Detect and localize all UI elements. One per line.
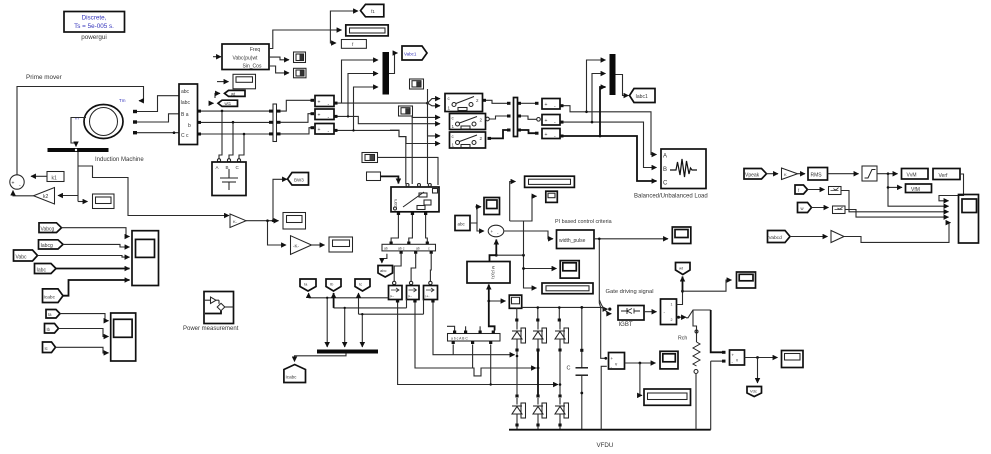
wire to VfM: [888, 186, 902, 188]
wire into breaker2 c: [412, 116, 440, 117]
sum S1: [10, 175, 24, 189]
wire row b to busbar2: [201, 121, 269, 123]
wire abc tap to scope4: [477, 207, 481, 223]
wire row a to busbar2: [201, 110, 269, 112]
goto tag wt: [225, 90, 246, 96]
wire gain2 out to BW3 and display H: [246, 220, 279, 222]
wire vmeas6 to load C: [564, 136, 657, 181]
wire saturation to VvM: [877, 173, 898, 175]
wire strip to imeas1: [394, 254, 401, 281]
scope B: [294, 68, 307, 78]
svg-text:K-: K-: [233, 219, 238, 224]
gain k4 (speed): [230, 214, 246, 228]
wire v2 minus: [710, 361, 712, 430]
wire wt to scope A: [269, 57, 289, 60]
svg-text:Prime mover: Prime mover: [26, 74, 62, 81]
svg-text:Power measurement: Power measurement: [183, 326, 239, 332]
from tag Vabcg: [39, 223, 62, 233]
svg-text:+: +: [318, 127, 321, 133]
wire Icabc2 to scope1: [63, 280, 130, 296]
wire into display under PLL: [217, 81, 229, 83]
from tag Vpeak: [744, 169, 767, 180]
svg-text:Ts = 5e-005 s.: Ts = 5e-005 s.: [74, 23, 114, 30]
wire Iabc to scope1: [56, 268, 130, 270]
wire Iabcg to scope1: [63, 244, 130, 247]
wire into scope3b: [524, 268, 557, 270]
wire imeas3 left line: [359, 313, 424, 315]
from tag Icabc2: [43, 289, 64, 303]
icon block small: [546, 191, 558, 202]
wire SinCos to scope B: [269, 66, 289, 73]
scope D: [399, 106, 413, 116]
wire bar to speed display path: [78, 166, 229, 216]
display G: [329, 237, 353, 252]
goto tag Iabc1: [630, 89, 656, 103]
MLI block: [467, 262, 510, 284]
gain4: [831, 231, 844, 243]
voltage measurement Vdc1: [609, 353, 625, 370]
gate stubs to diode tops: [516, 308, 518, 319]
measurement busbar: [48, 148, 109, 152]
wire block F to switch select: [381, 176, 399, 183]
scope3: [959, 195, 979, 244]
wire gate signal down: [599, 239, 600, 308]
svg-text:VFDU: VFDU: [597, 442, 614, 449]
wire Freq to top row: [269, 30, 330, 49]
wire vmeas5 to load B: [564, 122, 657, 167]
imeas bottom pins: [396, 300, 399, 303]
scope7: [660, 351, 678, 369]
block8 vertical: [661, 299, 677, 325]
wire tap to mux2 in2: [592, 74, 606, 123]
scope C above breakers: [410, 79, 424, 89]
goto tag Icabc: [284, 365, 306, 383]
display H: [283, 213, 306, 230]
DC V measure vertical: [601, 307, 606, 358]
svg-text:VfM: VfM: [911, 187, 920, 193]
wire B3 out to bus3: [491, 130, 507, 138]
svg-text:ab c: ab c: [398, 247, 405, 251]
junction c: [173, 131, 176, 134]
wire scope D down: [411, 116, 413, 184]
goto tag Ic: [355, 279, 370, 291]
mux2: [610, 54, 616, 95]
wire Ic to scope2: [56, 347, 109, 353]
wire Vabcg to scope1: [62, 228, 130, 237]
PLL block: [222, 44, 269, 70]
wire bus2 to vmeas2: [281, 114, 311, 123]
wire branch to icon block: [510, 196, 537, 221]
wire imeas1 left line: [309, 297, 389, 299]
current measurement i1: [389, 281, 403, 299]
wire tap b to cap bank: [229, 122, 233, 158]
svg-text:C: C: [567, 366, 571, 372]
goto tag BW3: [288, 173, 309, 186]
wire switch out1 to strip: [391, 215, 398, 242]
stem to goto Ia: [308, 293, 310, 298]
wire mux1 to goto Vabc: [389, 53, 398, 74]
port c: [133, 131, 137, 134]
svg-text:abc: abc: [181, 89, 190, 95]
svg-text:powergui: powergui: [81, 34, 107, 41]
svg-text:Discrete,: Discrete,: [82, 15, 107, 22]
wire V2 tap to mux1: [348, 74, 378, 117]
thick MLI feed line: [489, 286, 495, 331]
wire up to goto Ich: [682, 277, 684, 292]
wire m output to measurement bar: [71, 118, 86, 147]
power measurement block: [204, 292, 234, 324]
gate line horizontal: [522, 306, 601, 308]
voltage measurement Vdc2: [730, 350, 745, 365]
wire into breaker3 c: [428, 130, 441, 136]
constant k1: [47, 172, 64, 182]
voltage measurement V3: [315, 124, 334, 136]
wire into breaker1 c: [428, 99, 441, 104]
stub strip2 pin1: [452, 345, 454, 355]
svg-text:+: +: [611, 356, 614, 361]
from tag Iabc: [35, 264, 57, 274]
wire B2 out to bus3: [490, 116, 508, 119]
wire to display wm: [78, 201, 88, 203]
svg-text:Iabc: Iabc: [181, 100, 191, 106]
svg-text:+: +: [318, 113, 321, 119]
svg-text:A: A: [663, 154, 667, 160]
from tag f: [795, 185, 808, 194]
arrow into MLI bottom: [488, 285, 490, 289]
wire to gain k2: [58, 195, 78, 197]
vmeas4: [542, 99, 560, 111]
svg-text:Gate driving signal: Gate driving signal: [606, 289, 654, 295]
scope A: [294, 52, 306, 63]
wire sum2 to width_pulse: [504, 231, 553, 239]
wire busbar4 to goto Icabc: [295, 354, 347, 362]
stem to goto Ib: [333, 293, 335, 308]
multiport switch: [391, 187, 439, 212]
svg-text:BW3: BW3: [294, 178, 304, 183]
wire tf2 to scope3: [845, 210, 949, 218]
wire gain3 to RMS: [798, 173, 806, 175]
wire Ib to scope2: [59, 329, 109, 337]
induction machine IM: [84, 105, 123, 139]
wires into IGBT: [601, 307, 608, 309]
wire up to goto BW3: [273, 179, 287, 220]
busbar 4: [317, 350, 378, 354]
balanced/unbalanced load: [661, 149, 706, 189]
wire block8 bottom out: [677, 316, 687, 318]
wire branch to display2: [496, 255, 536, 288]
svg-text:+: +: [491, 229, 494, 234]
wire block E to switch top right: [378, 157, 439, 185]
goto tag Ich: [676, 263, 691, 275]
voltage measurement V2: [315, 109, 334, 121]
wire abc to sum2: [470, 223, 484, 231]
wire machine a to selector: [137, 96, 179, 112]
svg-text:1: 1: [671, 303, 673, 307]
wire V3 out to breaker3: [338, 130, 441, 143]
sum2: [488, 225, 504, 237]
svg-text:abc: abc: [458, 222, 466, 227]
gain k2: [34, 188, 55, 205]
display VfM: [906, 184, 932, 193]
mux1: [383, 52, 390, 95]
display VvM: [902, 169, 929, 180]
wire junction to scope8: [683, 280, 732, 291]
vmeas5: [542, 115, 560, 127]
transfer fcn tf2: [833, 206, 846, 214]
loop wire imeas2 to bridge leg2: [415, 303, 536, 376]
gain -K-: [291, 236, 312, 255]
wire tap a to cap bank: [219, 111, 222, 159]
wire w to tf2: [812, 207, 829, 209]
wire into PLL: [213, 56, 221, 58]
display2 wide: [542, 283, 593, 294]
bus selector: [179, 84, 198, 145]
wire width_pulse to scope5: [594, 238, 668, 240]
breaker B2: [450, 114, 486, 130]
wire stair down left of breakers: [390, 130, 406, 184]
display under PLL: [233, 74, 256, 89]
svg-text:M (2)(1): M (2)(1): [491, 266, 495, 279]
switch top input pins: [406, 184, 409, 187]
loop wire imeas3 to bridge leg1: [433, 303, 515, 355]
wire vertical to display1: [510, 182, 516, 222]
svg-text:-K-: -K-: [293, 244, 300, 249]
scope5: [672, 227, 691, 244]
wire Vabcd to gain4: [790, 236, 828, 238]
wire imeas2 left line: [334, 307, 407, 309]
wire f to tf1: [808, 189, 825, 191]
wire bus3 to vmeas4: [521, 102, 535, 104]
wire gain4 to scope3 in5: [844, 223, 951, 243]
out pins vmeas4-6: [560, 104, 564, 107]
wire k2 to sum: [13, 191, 34, 196]
svg-text:+: +: [545, 102, 548, 108]
wire v2 plus: [711, 310, 722, 352]
svg-text:+: +: [545, 132, 548, 138]
bottom rail: [509, 429, 711, 431]
svg-text:2: 2: [671, 318, 673, 322]
saturation block: [862, 166, 877, 181]
svg-text:Freq: Freq: [250, 47, 261, 53]
svg-text:Balanced/Unbalanced Load: Balanced/Unbalanced Load: [634, 194, 708, 200]
wire switch out3 to strip: [426, 215, 428, 242]
svg-text:Vabc1: Vabc1: [404, 52, 417, 57]
goto tag f1: [361, 4, 384, 16]
from tag Ia2: [46, 310, 60, 319]
svg-text:ab: ab: [384, 247, 388, 251]
svg-text:Induction Machine: Induction Machine: [95, 157, 144, 163]
svg-text:C: C: [663, 181, 668, 187]
loop wire imeas1 to bridge leg3: [398, 303, 558, 385]
wire bar down: [77, 152, 79, 202]
port a: [133, 110, 137, 113]
gain3: [782, 168, 798, 180]
bus bar 2: [269, 104, 281, 142]
wire machine b to selector: [137, 114, 179, 122]
wire into tag wt: [215, 93, 220, 98]
wire display H to gain: [268, 221, 287, 245]
wire to constant f: [330, 30, 336, 43]
scope1: [132, 231, 159, 286]
wire RMS to saturation: [828, 173, 859, 175]
diode upper 1: [512, 322, 526, 350]
svg-text:k2: k2: [43, 194, 49, 200]
svg-text:Tm: Tm: [119, 98, 126, 103]
wire Vdc2 to display4: [745, 357, 778, 359]
goto tag fm: [218, 100, 238, 106]
wire Verf loop to scope3: [939, 174, 964, 201]
capacitor C: [576, 306, 589, 430]
wire IGBT out to block8: [644, 311, 657, 313]
svg-text:k1: k1: [52, 176, 58, 182]
stubs above strip2: [447, 326, 455, 330]
source block E: [362, 153, 378, 163]
svg-text:K: K: [784, 172, 787, 177]
svg-text:com: com: [393, 199, 398, 207]
constant f: [341, 40, 366, 49]
wire into breaker1 in1: [428, 103, 441, 106]
powergui block: [64, 12, 125, 42]
display Verf: [933, 169, 960, 180]
voltage measurement V1: [315, 96, 334, 108]
junction to breaker1: [426, 102, 429, 105]
demux strip: [382, 242, 436, 254]
stub strip2 pin3: [490, 345, 492, 385]
svg-text:Iabc1: Iabc1: [636, 94, 648, 100]
capacitor bank: [212, 162, 246, 196]
scope6 small: [509, 295, 521, 308]
svg-text:B a: B a: [181, 112, 189, 118]
svg-text:Iabc: Iabc: [37, 268, 47, 274]
svg-text:width_pulse: width_pulse: [559, 238, 586, 244]
wire strip to goto Vdq: [382, 254, 387, 263]
svg-text:PI based control criteria: PI based control criteria: [555, 219, 612, 225]
svg-text:B: B: [226, 165, 229, 170]
svg-text:Verf: Verf: [939, 173, 949, 179]
diode upper 2: [533, 322, 547, 350]
width_pulse block: [557, 230, 595, 249]
svg-text:B: B: [663, 167, 667, 173]
upper diode bottom pins: [515, 349, 518, 352]
from tag Iabcg: [39, 240, 64, 249]
display wm: [93, 194, 115, 209]
bus3 right pins: [518, 102, 522, 105]
svg-text:abc: abc: [380, 268, 386, 273]
stems down to busbar4: [326, 298, 328, 347]
diode lower 2: [533, 398, 547, 424]
vmeas6: [542, 129, 560, 141]
goto tag Ib: [326, 279, 341, 291]
leg junction dots: [516, 355, 519, 358]
scope4: [484, 198, 500, 215]
svg-text:Vabc: Vabc: [16, 255, 28, 261]
resistor Rch: [693, 342, 700, 430]
wire Vdc2 to goto Vdc: [757, 358, 759, 384]
svg-text:RMS: RMS: [811, 173, 823, 179]
wire bus2 to vmeas3: [281, 128, 311, 134]
svg-text:Rch: Rch: [678, 336, 687, 342]
scope3b: [560, 261, 579, 279]
RMS block: [808, 168, 828, 181]
constant block F: [367, 172, 381, 181]
svg-text:Vabcd: Vabcd: [769, 235, 783, 241]
scope8: [737, 272, 756, 288]
wire tf1 to scope3: [841, 191, 949, 212]
bus bar 3: [514, 98, 518, 137]
svg-text:Sin_Cos: Sin_Cos: [243, 64, 262, 70]
svg-text:a b c A B C: a b c A B C: [451, 337, 468, 341]
wire k1 to sum: [31, 175, 47, 177]
wire to resistor and v2: [686, 310, 711, 318]
breaker B1: [445, 94, 483, 112]
switch bottom pins: [397, 212, 400, 215]
wire bus3 to vmeas6: [521, 130, 535, 133]
svg-text:Vpeak: Vpeak: [745, 172, 760, 178]
current measurement i3: [424, 281, 438, 299]
wire tap to mux2 in1: [587, 60, 606, 112]
wire strip to imeas3: [429, 254, 432, 281]
wire bus2 to vmeas1: [281, 100, 311, 111]
wire vertical link down to junction: [523, 221, 525, 255]
current measurement i2: [407, 281, 420, 299]
wire Ia to scope2: [60, 314, 109, 321]
wire Vdc1 to display3: [640, 363, 642, 395]
wire tap c to cap bank: [239, 134, 244, 159]
svg-text:b: b: [188, 123, 191, 129]
from block abc: [455, 216, 470, 231]
wire into tag fm: [210, 102, 214, 104]
svg-text:Vabc(pu)wt: Vabc(pu)wt: [233, 56, 259, 62]
IGBT block: [618, 306, 644, 321]
svg-text:wt1: wt1: [225, 101, 232, 106]
display3 wide: [644, 389, 691, 405]
strip2 subsystem: [448, 331, 501, 345]
wire to display f: [330, 29, 341, 31]
wire V1 out to breaker1: [338, 102, 428, 104]
wire MLI line to scope6: [489, 300, 506, 302]
diode lower 1: [512, 398, 526, 424]
display4: [782, 351, 804, 368]
display freq: [346, 25, 388, 36]
stem to goto Ic: [358, 293, 360, 314]
from tag w: [798, 203, 812, 213]
wire Vabc to scope1: [38, 256, 130, 258]
svg-text:A: A: [216, 165, 219, 170]
breaker B3: [450, 132, 486, 148]
svg-text:f1: f1: [371, 9, 375, 14]
wire mux2 to goto Iabc1: [616, 75, 629, 96]
svg-text:C c: C c: [181, 133, 189, 139]
wire machine c to selector: [137, 132, 179, 134]
wire row c to busbar2: [201, 133, 269, 135]
wire B1 out to bus3: [486, 100, 507, 103]
svg-text:+: +: [545, 118, 548, 124]
wire Vdc1 to scope7: [625, 362, 656, 364]
wire up to goto f1: [330, 11, 358, 30]
svg-text:Ic: Ic: [359, 282, 362, 287]
wire strip to imeas2: [411, 254, 416, 281]
transfer fcn tf1: [829, 187, 842, 195]
display1 wide: [525, 176, 575, 187]
from tag Vabcd: [768, 231, 791, 243]
svg-text:Iabcg: Iabcg: [41, 243, 53, 249]
svg-text:ab: ab: [416, 247, 420, 251]
bridge phase legs: [516, 352, 518, 396]
wire scope C down: [427, 89, 429, 184]
wire vmeas4 to load A: [564, 106, 657, 155]
wire tap to mux2 in3: [600, 87, 606, 136]
goto tag Vabc(pu): [402, 46, 427, 60]
